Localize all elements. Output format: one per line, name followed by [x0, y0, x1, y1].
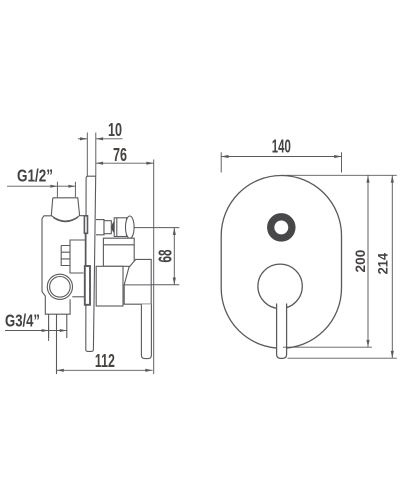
svg-text:10: 10 [108, 120, 122, 140]
dim 214 line [391, 175, 393, 358]
dim 76 line [96, 162, 154, 164]
arrow 200 top [366, 175, 369, 182]
cartridge block [70, 240, 85, 273]
dim 68 line [173, 228, 175, 285]
lever upper block [124, 259, 151, 304]
body top-right edge segment [80, 216, 86, 266]
port collar arc [51, 216, 79, 222]
outlet boss inner circle [50, 277, 71, 298]
arrowheads [42, 137, 394, 372]
arrow 214 top [391, 175, 394, 182]
ferrule fillet [113, 222, 116, 234]
diverter knob body [114, 218, 126, 237]
svg-text:200: 200 [352, 249, 368, 272]
handle axis line [124, 284, 179, 286]
dim 200 line [367, 175, 369, 347]
arrow 10 right [96, 137, 103, 140]
dim 10 line left [78, 138, 87, 140]
trim plate stadium outline [221, 176, 341, 349]
arrow 112 left [57, 369, 64, 372]
lever lower bar [141, 304, 151, 358]
G3/4 leader [5, 327, 67, 342]
arrow 76 right [146, 162, 153, 165]
svg-text:76: 76 [113, 145, 127, 165]
diverter stem sleeve (through plate) [84, 216, 87, 234]
diverter axis line [134, 227, 179, 229]
ext line lever bottom [288, 357, 397, 359]
knob inner line [116, 218, 118, 237]
knob end cap ellipse [126, 216, 135, 238]
arrow 76 left [96, 162, 103, 165]
arrow 140 left [221, 155, 228, 158]
wall plate side profile [86, 176, 96, 351]
diverter ferrule [104, 221, 111, 234]
dim 112 line [57, 369, 153, 371]
pipe center line [56, 314, 58, 374]
arrow 10 left [80, 137, 87, 140]
arrow G12 a [50, 185, 57, 188]
valve body outline [42, 216, 70, 314]
G3/4 stub [49, 314, 67, 338]
diverter button rings [268, 214, 295, 241]
dim 140 ext lines [221, 152, 341, 172]
G1/2 inlet port [51, 198, 79, 216]
dimension texts [5, 120, 390, 371]
arrow 200 bottom [366, 340, 369, 347]
arrow G34 a [42, 329, 49, 332]
svg-text:G3/4”: G3/4” [5, 311, 40, 331]
svg-text:140: 140 [272, 137, 291, 157]
svg-text:68: 68 [156, 250, 176, 263]
arrow G12 b [68, 185, 75, 188]
diverter stem [96, 220, 104, 235]
arrow G34 b [60, 329, 67, 332]
svg-text:G1/2”: G1/2” [17, 166, 53, 186]
arm line under boss [72, 296, 84, 298]
dim 140 line [221, 156, 341, 158]
handle hub [96, 266, 123, 306]
lever joint line [124, 284, 151, 286]
outlet boss outer circle [47, 274, 72, 299]
svg-text:112: 112 [95, 351, 115, 371]
G1/2 leader [7, 182, 75, 197]
svg-text:214: 214 [375, 253, 390, 275]
arrow 68 bottom [173, 278, 176, 285]
arrow 214 bottom [391, 351, 394, 358]
handle base circle [258, 264, 302, 308]
arrow 68 top [173, 228, 176, 235]
ext line oval bottom [283, 346, 372, 348]
dim 10 ext lines [87, 133, 96, 177]
arrow 140 right [334, 155, 341, 158]
cartridge housing [103, 238, 134, 266]
port collar inner arc [53, 217, 78, 221]
handle lever front [277, 304, 287, 359]
adjuster squares [61, 246, 70, 266]
dim 10 line right [96, 138, 123, 140]
arrow 112 right [145, 369, 152, 372]
handle sleeve (through plate) [85, 266, 90, 305]
ext line lever front [153, 160, 155, 375]
top ext line front [281, 174, 397, 176]
